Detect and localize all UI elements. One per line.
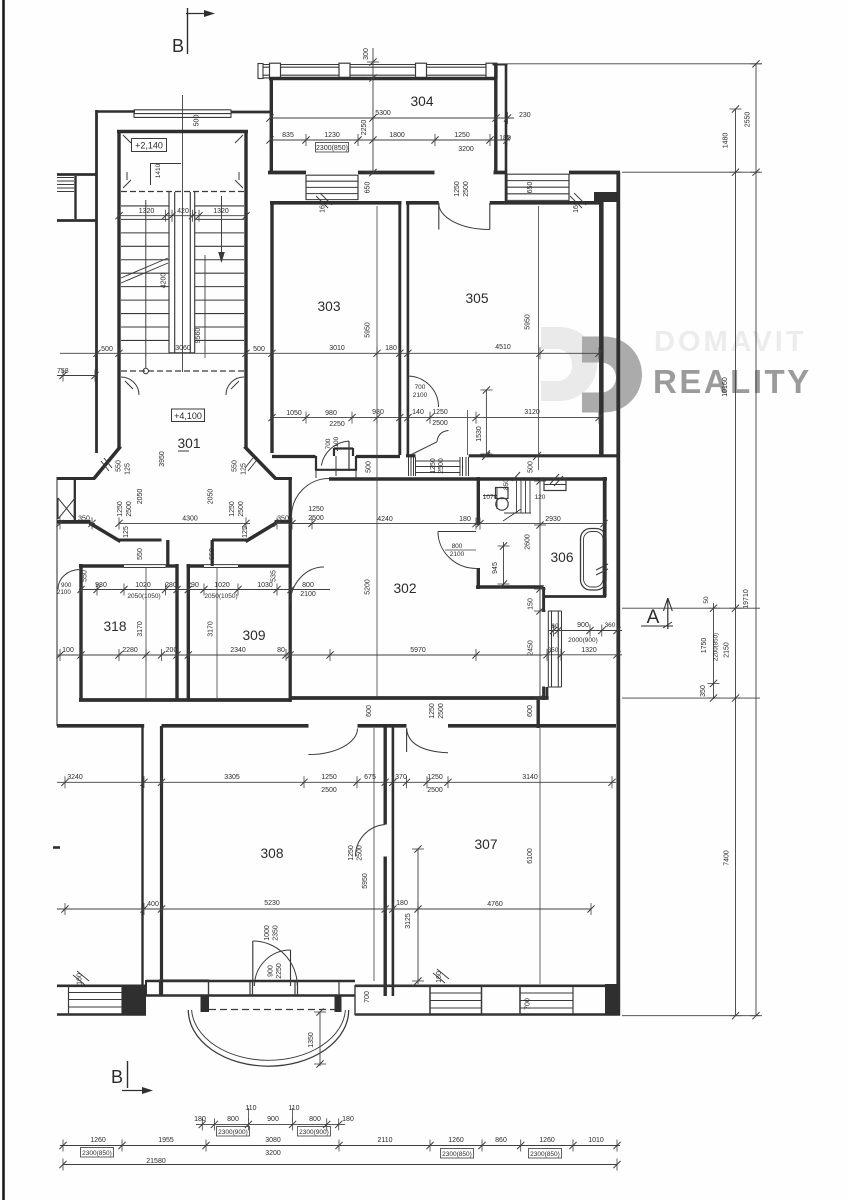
svg-text:300: 300 [363, 48, 370, 60]
svg-text:360: 360 [605, 622, 616, 629]
svg-text:370: 370 [395, 774, 407, 781]
svg-text:650: 650 [365, 182, 372, 194]
door arc 308 top [309, 729, 358, 755]
svg-text:19710: 19710 [743, 589, 750, 609]
stair room top wall [117, 130, 248, 133]
room 304 left wall [270, 77, 273, 173]
svg-text:60: 60 [551, 623, 559, 630]
svg-text:4510: 4510 [495, 344, 511, 351]
dim row 835/1230/1800/1250/185 [270, 139, 510, 141]
dim row 318/309 top [79, 589, 330, 591]
svg-text:550: 550 [209, 548, 216, 560]
svg-text:1250: 1250 [429, 703, 436, 719]
SE corner [605, 984, 620, 1016]
svg-text:600: 600 [366, 705, 373, 717]
svg-text:1320: 1320 [139, 208, 155, 215]
svg-text:2100: 2100 [57, 589, 71, 596]
dim col 300/2250 [372, 48, 374, 173]
label 3125 [417, 849, 419, 984]
room 306 bottom wall [476, 585, 544, 588]
room 309 top wall [187, 564, 204, 567]
dim 350 right [274, 522, 315, 524]
svg-text:304: 304 [410, 94, 433, 109]
svg-text:4240: 4240 [377, 516, 393, 523]
svg-text:980: 980 [372, 409, 384, 416]
divider 308/307 west [384, 726, 387, 825]
svg-text:5300: 5300 [375, 110, 391, 117]
svg-text:350: 350 [700, 685, 707, 697]
svg-text:1250: 1250 [308, 506, 324, 513]
svg-text:1250: 1250 [348, 845, 355, 861]
svg-text:550: 550 [232, 460, 239, 472]
svg-text:2250: 2250 [276, 963, 283, 979]
dim 350 left [57, 522, 95, 524]
svg-text:1260: 1260 [448, 1137, 464, 1144]
door arc 307 top [406, 728, 408, 752]
svg-text:A: A [647, 607, 660, 628]
svg-text:5200: 5200 [365, 579, 372, 595]
svg-text:180: 180 [385, 345, 397, 352]
rooms 318/309 bottom wall [79, 698, 291, 702]
svg-text:860: 860 [495, 1137, 507, 1144]
north outer wall right segment [231, 111, 271, 114]
long dim row y655 [57, 654, 543, 656]
entrance semicircle [188, 1010, 348, 1066]
svg-text:1955: 1955 [158, 1137, 174, 1144]
svg-text:4760: 4760 [487, 901, 503, 908]
wall 303 south [272, 455, 316, 458]
svg-text:3125: 3125 [405, 913, 412, 929]
vestibule bottom wall left [119, 538, 162, 541]
svg-text:50: 50 [703, 596, 710, 604]
svg-text:5950: 5950 [362, 873, 369, 889]
stair north window [134, 109, 231, 111]
svg-text:306: 306 [550, 550, 573, 565]
right dim line inner [735, 109, 737, 1016]
dim row 60/900/360 [548, 630, 622, 632]
room 308 left wall [160, 726, 163, 996]
svg-text:900: 900 [61, 582, 72, 589]
svg-text:2300(900): 2300(900) [299, 1129, 329, 1136]
door frame 303 niche [334, 447, 353, 449]
left edge line [56, 477, 58, 726]
svg-text:3950: 3950 [159, 451, 166, 467]
svg-text:3080: 3080 [265, 1137, 281, 1144]
watermark logo D [582, 337, 642, 413]
svg-text:100: 100 [62, 647, 74, 654]
room 318 right wall [175, 564, 178, 700]
svg-text:700: 700 [364, 991, 371, 1003]
svg-text:2550: 2550 [745, 112, 752, 128]
svg-text:900: 900 [577, 622, 589, 629]
svg-text:535: 535 [271, 570, 278, 582]
svg-text:1250: 1250 [117, 501, 124, 517]
svg-text:1530: 1530 [476, 426, 483, 442]
dim col right of 302 [539, 481, 541, 698]
svg-text:308: 308 [260, 846, 283, 861]
svg-text:3140: 3140 [522, 774, 538, 781]
svg-text:302: 302 [393, 581, 416, 596]
svg-text:2300(850): 2300(850) [442, 1151, 472, 1158]
dim row 1050/980/980/140/1250/3120 [270, 417, 601, 419]
svg-text:1020: 1020 [214, 582, 230, 589]
party wall 304 right [494, 64, 497, 174]
svg-text:2110: 2110 [377, 1137, 392, 1144]
landing edge dashed [121, 191, 244, 193]
svg-text:835: 835 [282, 132, 294, 139]
chamfer wall right [245, 447, 276, 479]
svg-text:650: 650 [527, 182, 534, 194]
svg-text:550: 550 [116, 460, 123, 472]
scan border strip [2, 0, 5, 1200]
balcony wall south [537, 697, 540, 728]
dim row 400/5230/180/4760 [57, 908, 591, 910]
room 306 right wall [603, 477, 607, 597]
svg-text:301: 301 [177, 436, 200, 451]
svg-text:400: 400 [147, 901, 159, 908]
svg-text:4200: 4200 [161, 273, 168, 289]
section line B [182, 95, 184, 372]
svg-text:110: 110 [288, 1105, 299, 1112]
svg-text:900: 900 [267, 1116, 279, 1123]
svg-text:1320: 1320 [213, 208, 229, 215]
window mullions 308 [208, 981, 210, 996]
svg-text:230: 230 [519, 112, 531, 119]
level label +2,140 [132, 139, 167, 152]
left wing walls [57, 173, 96, 176]
vestibule corner arcs [121, 377, 139, 395]
balcony left block [258, 64, 263, 79]
svg-text:125: 125 [241, 463, 248, 475]
svg-text:140: 140 [412, 409, 424, 416]
svg-text:800: 800 [309, 1116, 321, 1123]
pier left block [122, 986, 146, 1015]
svg-text:350: 350 [78, 516, 90, 523]
door 303 niche [348, 441, 350, 471]
svg-text:980: 980 [95, 582, 107, 589]
svg-text:1260: 1260 [90, 1137, 106, 1144]
svg-text:3305: 3305 [224, 774, 240, 781]
stair treads [121, 205, 169, 207]
svg-text:1260: 1260 [539, 1137, 555, 1144]
svg-text:500: 500 [528, 461, 535, 473]
svg-text:6100: 6100 [527, 848, 534, 864]
svg-text:125: 125 [123, 526, 130, 538]
svg-text:2000(900): 2000(900) [568, 637, 598, 644]
chamfer bottom right [246, 523, 277, 542]
svg-text:2500: 2500 [238, 501, 245, 517]
svg-text:REALITY: REALITY [653, 363, 812, 400]
svg-text:3200: 3200 [458, 146, 474, 153]
svg-text:1250: 1250 [427, 774, 443, 781]
svg-text:1250: 1250 [454, 132, 470, 139]
corridor jambs to 302 [166, 540, 169, 566]
svg-text:1250: 1250 [229, 501, 236, 517]
wall hash 306 [550, 474, 559, 484]
chamfer bottom left [90, 523, 121, 542]
svg-text:500: 500 [366, 461, 373, 473]
svg-text:800: 800 [227, 1116, 239, 1123]
pier 307 mid [482, 986, 521, 1015]
svg-text:2500: 2500 [432, 420, 448, 427]
left block wall mark [53, 846, 60, 849]
svg-text:150: 150 [528, 598, 535, 610]
balcony posts [270, 63, 281, 79]
shaft closet door arc [408, 376, 439, 407]
svg-text:2500: 2500 [463, 181, 470, 197]
svg-text:1070: 1070 [483, 494, 498, 501]
window 307 left [429, 986, 431, 1015]
svg-text:1410: 1410 [155, 163, 162, 178]
room 302 bottom wall [290, 696, 549, 700]
shaft walls 303/305 [398, 201, 401, 455]
left alcove walls [57, 477, 95, 480]
landing L mark [150, 163, 181, 165]
svg-text:1750: 1750 [701, 638, 708, 654]
svg-text:2050: 2050 [137, 489, 144, 505]
svg-text:2930: 2930 [545, 516, 561, 523]
svg-text:180: 180 [459, 516, 471, 523]
door arc 318 [58, 570, 80, 590]
east lightwell window band [507, 173, 569, 175]
svg-text:3120: 3120 [524, 409, 540, 416]
window 309 top [204, 564, 238, 566]
svg-text:110: 110 [245, 1105, 256, 1112]
room 304 top wall [269, 77, 496, 80]
stair walk line left [145, 200, 147, 368]
svg-text:900: 900 [268, 965, 275, 977]
svg-text:2250: 2250 [361, 120, 368, 136]
stair center rails [168, 192, 170, 354]
south corridor wall [57, 724, 144, 728]
sink 306 [544, 479, 566, 491]
dim row 5300 [270, 117, 514, 119]
window 307 right [519, 986, 521, 1015]
NE step wall [594, 192, 619, 202]
svg-text:1000: 1000 [264, 925, 271, 941]
label 1530 [485, 390, 487, 454]
stair bottom dashed [121, 370, 244, 372]
room 303 top wall [270, 201, 402, 205]
room 318 top wall [79, 564, 124, 567]
stair dim row 1320/420/1320 [119, 215, 246, 217]
window below 305 [408, 457, 410, 476]
svg-text:2340: 2340 [230, 647, 246, 654]
svg-text:180: 180 [396, 900, 408, 907]
left alcove bowtie door [57, 498, 59, 519]
svg-text:1020: 1020 [135, 582, 151, 589]
svg-text:350: 350 [548, 647, 559, 654]
svg-text:2300(900): 2300(900) [218, 1129, 248, 1136]
svg-text:2350: 2350 [273, 925, 280, 941]
svg-text:2100: 2100 [413, 392, 428, 399]
svg-text:280: 280 [165, 582, 177, 589]
svg-text:800: 800 [452, 543, 463, 550]
svg-text:2300(850): 2300(850) [82, 1150, 112, 1157]
svg-text:9560: 9560 [195, 328, 202, 344]
svg-text:2100: 2100 [300, 591, 316, 598]
wall below 305 [406, 454, 416, 457]
right lobby walls [275, 477, 293, 480]
wall ticks below 305 [482, 452, 490, 460]
svg-text:4300: 4300 [182, 516, 198, 523]
svg-text:1480: 1480 [723, 133, 730, 149]
svg-text:1320: 1320 [581, 647, 597, 654]
svg-text:2600: 2600 [525, 534, 532, 550]
svg-text:2150: 2150 [724, 642, 731, 658]
svg-text:307: 307 [474, 837, 497, 852]
svg-text:318: 318 [103, 619, 126, 634]
room 305 right wall [599, 201, 604, 457]
left outer wall [95, 110, 98, 453]
room 318 left wall [79, 564, 82, 700]
bathtub 306 [581, 529, 607, 591]
south wall left block [57, 984, 146, 987]
svg-text:3240: 3240 [67, 774, 83, 781]
svg-text:3010: 3010 [329, 345, 345, 352]
door arc 304-305 [439, 203, 490, 229]
dim row 4240/180/2930 [290, 523, 607, 525]
svg-text:3170: 3170 [208, 621, 215, 637]
svg-text:200: 200 [166, 647, 178, 654]
svg-text:2300(850): 2300(850) [316, 145, 348, 152]
stair room left wall [117, 130, 120, 448]
svg-text:+4,100: +4,100 [174, 411, 202, 421]
room 305 top wall [406, 201, 439, 205]
pipes 306 [516, 480, 518, 513]
svg-text:2450: 2450 [528, 640, 535, 656]
balcony window south of 306 [547, 611, 549, 687]
door arc 309-302 [290, 567, 324, 605]
svg-text:125: 125 [125, 463, 132, 475]
svg-text:1250: 1250 [430, 458, 437, 474]
label 1350 semicircle [319, 1012, 321, 1066]
svg-text:305: 305 [465, 291, 488, 306]
svg-text:2500: 2500 [357, 845, 364, 861]
svg-text:309: 309 [242, 628, 265, 643]
svg-text:500: 500 [253, 346, 265, 353]
door opening jambs 304 [433, 171, 435, 175]
extension line 305 right wall [599, 206, 601, 455]
svg-text:2050(1050): 2050(1050) [127, 593, 160, 600]
svg-text:3200: 3200 [265, 1150, 281, 1157]
svg-text:600: 600 [527, 705, 534, 717]
stair lightwell window band [306, 174, 358, 176]
svg-text:185: 185 [499, 135, 511, 142]
svg-text:180: 180 [342, 1116, 354, 1123]
svg-text:3060: 3060 [175, 345, 191, 352]
svg-text:2200(850): 2200(850) [713, 633, 720, 661]
svg-text:500: 500 [101, 346, 113, 353]
svg-text:2500: 2500 [126, 501, 133, 517]
left wing window [57, 177, 74, 179]
porch side blocks [201, 996, 210, 1013]
entrance door arcs [252, 941, 254, 986]
svg-text:10160: 10160 [722, 377, 729, 397]
room 306 left wall [477, 477, 480, 525]
svg-text:2500: 2500 [308, 515, 324, 522]
room 308 top wall [162, 724, 309, 728]
divider 308/307 east [392, 726, 395, 996]
svg-text:303: 303 [317, 299, 340, 314]
svg-text:2500: 2500 [438, 703, 445, 719]
door arc 306 [438, 532, 477, 569]
door arc 307-308 [355, 825, 385, 857]
svg-text:550: 550 [137, 548, 144, 560]
niche 303 pocket [315, 456, 317, 470]
bottom dim row detail [196, 1123, 345, 1125]
watermark ghost logo [541, 327, 597, 401]
svg-text:980: 980 [325, 410, 337, 417]
svg-text:800: 800 [302, 582, 314, 589]
south wall 307 [355, 984, 620, 987]
svg-text:1800: 1800 [389, 132, 405, 139]
room 302 top wall [329, 477, 607, 480]
svg-text:290: 290 [187, 582, 199, 589]
svg-text:1050: 1050 [286, 410, 302, 417]
svg-text:420: 420 [177, 208, 189, 215]
svg-text:1250: 1250 [432, 409, 448, 416]
svg-text:1250: 1250 [454, 181, 461, 197]
svg-text:21580: 21580 [146, 1158, 166, 1165]
svg-text:850: 850 [503, 479, 510, 490]
pier 307 west [355, 986, 430, 1015]
vestibule bottom wall right [212, 538, 247, 541]
chamfer wall left [94, 447, 121, 479]
svg-text:2250: 2250 [329, 421, 345, 428]
toilet 306 [496, 498, 508, 510]
stair walk line right [221, 196, 223, 256]
extension line 3120 [467, 410, 469, 455]
svg-text:350: 350 [277, 516, 289, 523]
svg-text:7400: 7400 [724, 850, 731, 866]
svg-text:2100: 2100 [450, 551, 465, 558]
stair room right wall [244, 130, 247, 448]
south wall 308 [146, 980, 355, 983]
dim row 350/1320 [543, 654, 622, 656]
svg-text:1350: 1350 [308, 1032, 315, 1048]
double door 305-302 [412, 442, 438, 455]
porch threshold dashed [209, 1009, 335, 1011]
svg-text:700: 700 [525, 998, 532, 1010]
svg-text:125: 125 [242, 526, 249, 538]
svg-text:80: 80 [277, 647, 285, 654]
svg-text:5950: 5950 [365, 322, 372, 338]
right dim line outer [755, 64, 757, 1016]
svg-text:2050(1050): 2050(1050) [204, 593, 237, 600]
svg-text:5950: 5950 [525, 314, 532, 330]
svg-text:2050: 2050 [208, 489, 215, 505]
svg-text:2280: 2280 [122, 647, 138, 654]
svg-text:DOMAVIT: DOMAVIT [654, 326, 807, 358]
bottom dim row main [60, 1145, 620, 1147]
window left block [68, 986, 70, 1015]
svg-text:1030: 1030 [257, 582, 273, 589]
svg-text:B: B [172, 36, 184, 56]
right dim extension lines [622, 171, 760, 173]
balcony railing 304 [259, 64, 497, 66]
east outer wall [616, 172, 620, 1016]
svg-text:2500: 2500 [438, 458, 445, 474]
svg-text:2500: 2500 [427, 787, 443, 794]
landing corner dashes [123, 135, 131, 143]
svg-text:180: 180 [194, 1116, 206, 1123]
svg-text:2300(850): 2300(850) [530, 1151, 560, 1158]
svg-text:1230: 1230 [324, 132, 340, 139]
tub faucet ticks [596, 564, 608, 570]
north main wall [268, 171, 306, 175]
room 309 left wall [187, 564, 190, 700]
